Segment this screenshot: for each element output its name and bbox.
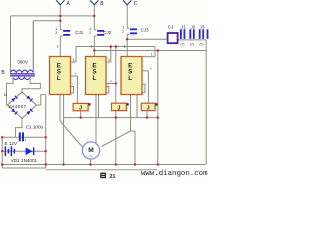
svg-text:(7): (7) [200, 42, 204, 46]
svg-text:(7): (7) [190, 42, 194, 46]
svg-text:-: - [145, 80, 146, 84]
svg-text:1: 1 [91, 44, 93, 48]
svg-text:CJ2: CJ2 [103, 30, 111, 35]
svg-text:E 12V: E 12V [5, 141, 18, 146]
svg-text:+: + [25, 138, 27, 142]
svg-text:+: + [110, 80, 112, 84]
svg-text:21: 21 [110, 174, 116, 180]
svg-text:CJ1: CJ1 [75, 30, 83, 35]
svg-text:380V: 380V [17, 60, 29, 65]
svg-text:1: 1 [108, 58, 110, 62]
svg-text:CJ: CJ [168, 25, 174, 30]
svg-text:-: - [72, 82, 73, 86]
svg-text:2: 2 [55, 31, 57, 35]
svg-text:J1: J1 [181, 24, 186, 29]
svg-text:L: L [128, 75, 132, 82]
svg-text:1: 1 [124, 44, 126, 48]
svg-text:www.diangon.com: www.diangon.com [141, 170, 208, 178]
svg-text:+: + [150, 67, 152, 71]
svg-text:J2: J2 [191, 24, 196, 29]
svg-text:1: 1 [57, 44, 59, 48]
svg-text:CJ3: CJ3 [141, 27, 149, 32]
svg-text:(7): (7) [181, 42, 185, 46]
svg-text:J3: J3 [200, 24, 205, 29]
svg-text:J: J [79, 106, 82, 112]
svg-text:-: - [108, 83, 109, 87]
svg-text:1: 1 [73, 58, 75, 62]
svg-text:J: J [117, 106, 120, 112]
svg-text:L: L [93, 75, 97, 82]
svg-text:L: L [57, 75, 61, 82]
svg-text:2A4007: 2A4007 [8, 104, 26, 109]
svg-text:+: + [75, 72, 77, 76]
svg-text:C: C [134, 1, 138, 7]
svg-text:VD1 1N4001: VD1 1N4001 [11, 158, 38, 163]
svg-text:1: 1 [151, 53, 153, 57]
svg-text:C1 100u: C1 100u [26, 125, 44, 130]
svg-text:2: 2 [89, 31, 91, 35]
svg-text:2: 2 [122, 29, 124, 33]
svg-text:J: J [147, 106, 150, 112]
svg-text:U: U [4, 92, 7, 97]
